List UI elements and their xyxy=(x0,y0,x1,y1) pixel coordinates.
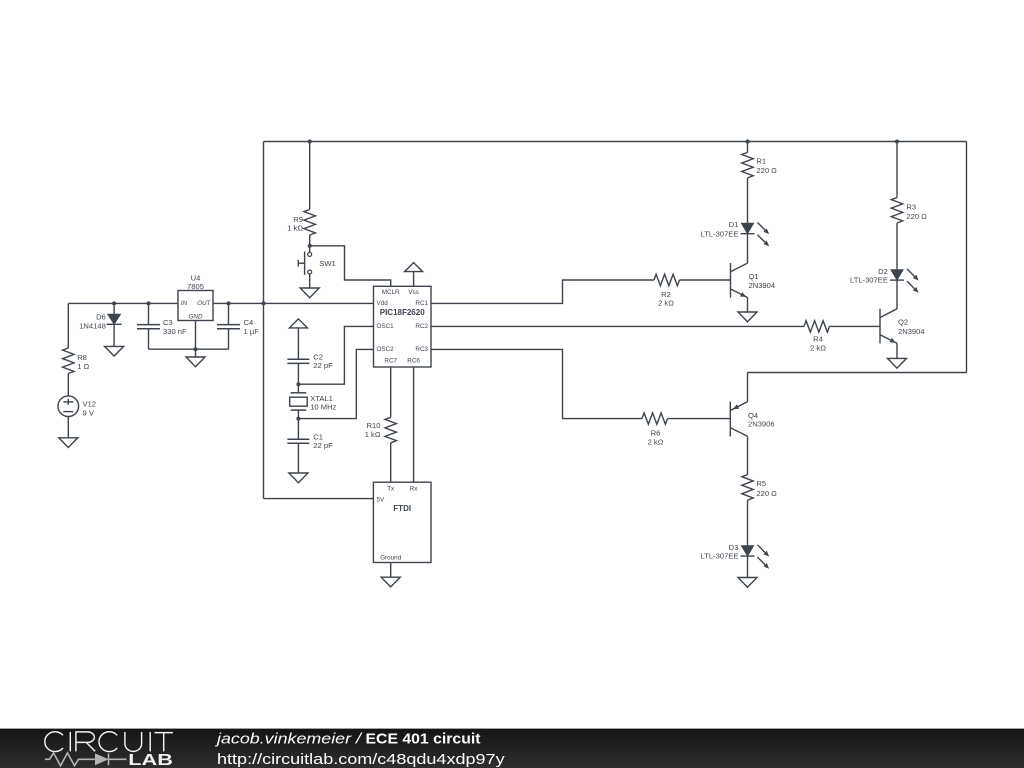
svg-text:FTDI: FTDI xyxy=(393,504,411,513)
transistor Q1 2N3904 xyxy=(731,263,776,298)
svg-text:RC1: RC1 xyxy=(415,300,428,307)
voltage source V12 9 V xyxy=(58,396,96,417)
svg-text:22 pF: 22 pF xyxy=(313,361,333,370)
svg-text:IN: IN xyxy=(181,300,188,307)
svg-text:RC6: RC6 xyxy=(407,358,420,365)
regulator U4 7805 xyxy=(178,274,213,321)
svg-text:D1: D1 xyxy=(729,220,739,229)
wire: V12 to ground xyxy=(67,417,69,438)
wire: RC6 to FTDI Rx xyxy=(413,367,415,482)
wire: RC2 to R4 xyxy=(431,325,804,327)
svg-text:2 kΩ: 2 kΩ xyxy=(810,344,826,353)
wire: R5 to D3 xyxy=(747,500,749,545)
wire: OSC2 to crystal node xyxy=(298,349,373,418)
svg-text:OSC2: OSC2 xyxy=(377,346,395,353)
svg-text:OSC1: OSC1 xyxy=(377,323,395,330)
wire: R6 to Q4 base xyxy=(668,418,731,420)
svg-text:jacob.vinkemeier /: jacob.vinkemeier / xyxy=(215,731,364,748)
power arrow: crystal branch top xyxy=(289,319,307,328)
wire: Q4 emitter riser xyxy=(747,373,749,403)
svg-text:5V: 5V xyxy=(377,497,386,504)
svg-text:330 nF: 330 nF xyxy=(163,327,187,336)
svg-text:7805: 7805 xyxy=(187,282,204,291)
resistor R2 2 k&#937; xyxy=(654,274,680,307)
svg-text:C3: C3 xyxy=(163,318,173,327)
svg-text:PIC18F2620: PIC18F2620 xyxy=(380,308,425,317)
wire: left vertical of supply loop xyxy=(263,142,265,499)
junction: R1 tap on top rail xyxy=(746,140,750,144)
svg-text:R6: R6 xyxy=(651,429,661,438)
ground: below D6 xyxy=(105,346,124,356)
junction: U4 gnd / bus xyxy=(194,347,198,351)
capacitor C1 22 pF xyxy=(287,432,333,473)
svg-text:22 pF: 22 pF xyxy=(313,441,333,450)
wire: rail to R9 xyxy=(309,142,311,210)
svg-text:9 V: 9 V xyxy=(83,408,95,417)
wire: Q1 emitter to ground xyxy=(747,298,749,313)
svg-text:Vdd: Vdd xyxy=(377,300,389,307)
svg-text:SW1: SW1 xyxy=(319,259,335,268)
svg-text:R4: R4 xyxy=(813,335,823,344)
svg-text:http://circuitlab.com/c48qdu4x: http://circuitlab.com/c48qdu4xdp97y xyxy=(217,751,505,768)
capacitor C3 330 nF xyxy=(137,303,187,349)
svg-text:220 Ω: 220 Ω xyxy=(756,166,777,175)
junction: R3 tap on top rail xyxy=(895,140,899,144)
CircuitLab logo: resistor-diode glyph xyxy=(45,753,127,766)
wire: ground bus C3 to C4 xyxy=(149,348,229,350)
svg-text:R1: R1 xyxy=(756,157,766,166)
wire: FTDI Ground pin xyxy=(390,563,392,578)
wire: R8 to V12 xyxy=(67,374,69,396)
svg-text:1N4148: 1N4148 xyxy=(79,321,106,330)
resistor R3 220 &#937; xyxy=(891,198,927,224)
wire: right vertical of supply loop xyxy=(966,142,968,373)
svg-text:ECE 401 circuit: ECE 401 circuit xyxy=(366,731,481,748)
svg-text:RC3: RC3 xyxy=(415,346,428,353)
svg-text:Ground: Ground xyxy=(380,554,402,561)
svg-text:Tx: Tx xyxy=(387,485,395,492)
wire: bus to ground symbol xyxy=(195,349,197,357)
svg-text:1 kΩ: 1 kΩ xyxy=(365,430,381,439)
resistor R4 2 k&#937; xyxy=(804,321,830,353)
crystal XTAL1 10 MHz xyxy=(290,393,337,439)
resistor R10 1 k&#937; xyxy=(365,417,397,443)
resistor R8 1 &#937; xyxy=(63,348,90,374)
capacitor C4 1 uF xyxy=(217,303,259,349)
IC U: PIC18F2620 xyxy=(374,286,432,367)
svg-text:RC2: RC2 xyxy=(415,323,428,330)
svg-text:Q1: Q1 xyxy=(749,272,759,281)
junction: rail / loop vertical xyxy=(262,301,266,305)
resistor R1 220 &#937; xyxy=(742,152,777,178)
svg-text:10 MHz: 10 MHz xyxy=(310,402,336,411)
svg-text:Q2: Q2 xyxy=(898,318,908,327)
junction: D6 tap xyxy=(112,301,116,305)
ground: regulator ground xyxy=(186,357,205,367)
wire: node to PIC MCLR pin xyxy=(310,246,391,286)
wire: Q4 collector to R5 xyxy=(747,436,749,474)
junction: XTAL1 / C1 / OSC2 xyxy=(296,417,300,421)
LED D3 LTL-307EE xyxy=(701,543,770,569)
svg-text:2N3904: 2N3904 xyxy=(749,281,776,290)
svg-text:OUT: OUT xyxy=(197,300,211,307)
pushbutton SW1 xyxy=(298,246,335,288)
IC: FTDI interface xyxy=(373,482,431,562)
ground: below FTDI xyxy=(381,577,400,587)
svg-text:LTL-307EE: LTL-307EE xyxy=(701,229,739,238)
svg-text:220 Ω: 220 Ω xyxy=(756,489,777,498)
svg-text:R3: R3 xyxy=(906,203,916,212)
svg-text:D6: D6 xyxy=(96,313,106,322)
svg-text:2 kΩ: 2 kΩ xyxy=(648,438,664,447)
svg-text:V12: V12 xyxy=(83,400,97,409)
svg-text:2 kΩ: 2 kΩ xyxy=(658,298,674,307)
svg-text:Vss: Vss xyxy=(408,289,419,296)
wire: arrow to C2 xyxy=(297,328,299,359)
junction: C2 / XTAL1 / OSC1 xyxy=(296,382,300,386)
wire: R3 to D2 xyxy=(896,223,898,270)
wire: rail down to R8 xyxy=(67,303,69,348)
resistor R5 220 &#937; xyxy=(742,475,777,501)
wire: RC3 to R6 xyxy=(431,349,642,418)
svg-text:2N3906: 2N3906 xyxy=(748,419,775,428)
junction: C4 tap xyxy=(227,301,231,305)
svg-text:2N3904: 2N3904 xyxy=(898,327,925,336)
ground: below SW1 xyxy=(300,288,319,298)
svg-text:1 kΩ: 1 kΩ xyxy=(287,224,303,233)
svg-text:LAB: LAB xyxy=(128,752,173,768)
wire: RC7 down to R10 xyxy=(390,367,392,417)
transistor Q4 2N3906 xyxy=(730,402,774,437)
ground: Q1 emitter xyxy=(738,312,757,322)
wire: R1 to D1 xyxy=(747,178,749,223)
svg-text:1 µF: 1 µF xyxy=(244,327,260,336)
ground: Q2 emitter xyxy=(888,358,907,368)
wire: U4 GND pin down xyxy=(195,321,197,350)
svg-text:1 Ω: 1 Ω xyxy=(77,362,89,371)
wire: bottom rail to Q4 emitter xyxy=(748,372,967,374)
ground: crystal branch xyxy=(289,473,308,483)
resistor R6 2 k&#937; xyxy=(642,413,668,447)
LED D1 LTL-307EE xyxy=(701,220,770,246)
wire: 5V rail from input to U4 IN xyxy=(68,302,178,304)
wire: rail to R3 xyxy=(896,142,898,198)
diode D6 1N4148 xyxy=(79,303,121,346)
svg-text:R8: R8 xyxy=(77,353,87,362)
wire: OSC1 to crystal node xyxy=(298,326,373,384)
wire: RC1 to R2 xyxy=(431,280,654,303)
LED D2 LTL-307EE xyxy=(850,267,919,293)
svg-text:D3: D3 xyxy=(729,543,739,552)
wire: 5V rail U4 OUT to PIC Vdd xyxy=(213,302,374,304)
svg-text:R10: R10 xyxy=(367,421,381,430)
wire: R4 to Q2 base xyxy=(830,325,881,327)
wire: D2 to Q2 collector xyxy=(896,280,898,309)
junction: C3 tap xyxy=(147,301,151,305)
svg-text:C4: C4 xyxy=(244,318,254,327)
wire: 5V feed to FTDI xyxy=(264,498,374,500)
svg-text:R9: R9 xyxy=(293,215,303,224)
wire: rail to R1 xyxy=(747,142,749,153)
svg-text:RC7: RC7 xyxy=(384,358,397,365)
svg-text:Rx: Rx xyxy=(410,485,419,492)
junction: R9 tap on top rail xyxy=(308,140,312,144)
svg-text:MCLR: MCLR xyxy=(382,289,400,296)
CircuitLab logo: CIRCUIT wordmark xyxy=(45,732,173,752)
capacitor C2 22 pF xyxy=(287,353,333,393)
ground: below D3 xyxy=(738,578,757,588)
svg-text:D2: D2 xyxy=(878,267,888,276)
resistor R9 1 k&#937; xyxy=(287,210,315,246)
wire: D1 to Q1 collector xyxy=(747,234,749,263)
svg-text:LTL-307EE: LTL-307EE xyxy=(850,276,888,285)
svg-text:LTL-307EE: LTL-307EE xyxy=(701,552,739,561)
junction: R9 / SW1 / MCLR node xyxy=(308,244,312,248)
svg-text:GND: GND xyxy=(189,313,203,320)
svg-text:220 Ω: 220 Ω xyxy=(906,212,927,221)
wire: R2 to Q1 base xyxy=(680,279,731,281)
wire: top 9V supply rail xyxy=(264,141,967,143)
wire: Q2 emitter to ground xyxy=(896,343,898,358)
power arrow: Vss xyxy=(405,263,423,272)
wire: R10 to FTDI Tx xyxy=(390,443,392,482)
ground: below V12 xyxy=(59,438,78,448)
wire: Vss pin to power arrow xyxy=(413,272,415,287)
svg-text:R5: R5 xyxy=(756,479,766,488)
transistor Q2 2N3904 xyxy=(880,309,925,344)
wire: D3 to ground xyxy=(747,556,749,577)
